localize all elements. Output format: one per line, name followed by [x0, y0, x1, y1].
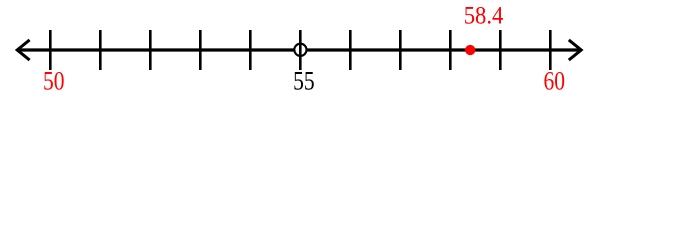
svg-text:58.4: 58.4 — [464, 3, 504, 30]
svg-text:55: 55 — [293, 66, 315, 96]
svg-text:60: 60 — [544, 66, 566, 96]
svg-text:50: 50 — [43, 66, 65, 96]
